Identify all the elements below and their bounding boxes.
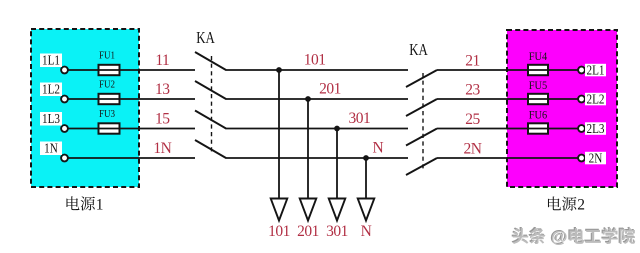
svg-text:201: 201 <box>297 223 319 240</box>
svg-text:FU2: FU2 <box>99 79 115 91</box>
svg-text:FU3: FU3 <box>99 108 115 120</box>
svg-text:N: N <box>373 140 384 157</box>
svg-text:25: 25 <box>465 111 480 128</box>
svg-text:KA: KA <box>409 42 428 60</box>
svg-text:101: 101 <box>304 52 326 69</box>
svg-text:KA: KA <box>196 30 215 48</box>
svg-text:FU5: FU5 <box>529 80 548 93</box>
svg-text:11: 11 <box>155 52 169 69</box>
svg-text:N: N <box>361 223 372 240</box>
svg-text:301: 301 <box>326 223 348 240</box>
svg-text:2L2: 2L2 <box>586 91 604 106</box>
svg-text:201: 201 <box>319 81 341 98</box>
svg-text:2L1: 2L1 <box>586 62 604 77</box>
svg-text:2L3: 2L3 <box>586 121 604 136</box>
svg-text:1L2: 1L2 <box>42 82 60 97</box>
svg-text:21: 21 <box>465 52 480 69</box>
svg-text:1L1: 1L1 <box>42 53 60 68</box>
svg-text:2N: 2N <box>464 140 482 157</box>
svg-text:1N: 1N <box>153 140 171 157</box>
svg-text:2: 2 <box>577 197 585 214</box>
svg-text:FU6: FU6 <box>529 109 548 122</box>
svg-text:@: @ <box>551 228 568 247</box>
svg-text:301: 301 <box>349 110 371 127</box>
svg-text:1L3: 1L3 <box>42 111 60 126</box>
svg-text:13: 13 <box>155 81 170 98</box>
svg-text:101: 101 <box>268 223 290 240</box>
svg-text:2N: 2N <box>589 150 603 165</box>
svg-text:1: 1 <box>96 196 104 213</box>
svg-text:23: 23 <box>465 81 480 98</box>
svg-text:FU1: FU1 <box>99 50 115 62</box>
svg-text:1N: 1N <box>44 141 58 156</box>
svg-text:FU4: FU4 <box>529 51 548 64</box>
svg-text:15: 15 <box>155 111 170 128</box>
